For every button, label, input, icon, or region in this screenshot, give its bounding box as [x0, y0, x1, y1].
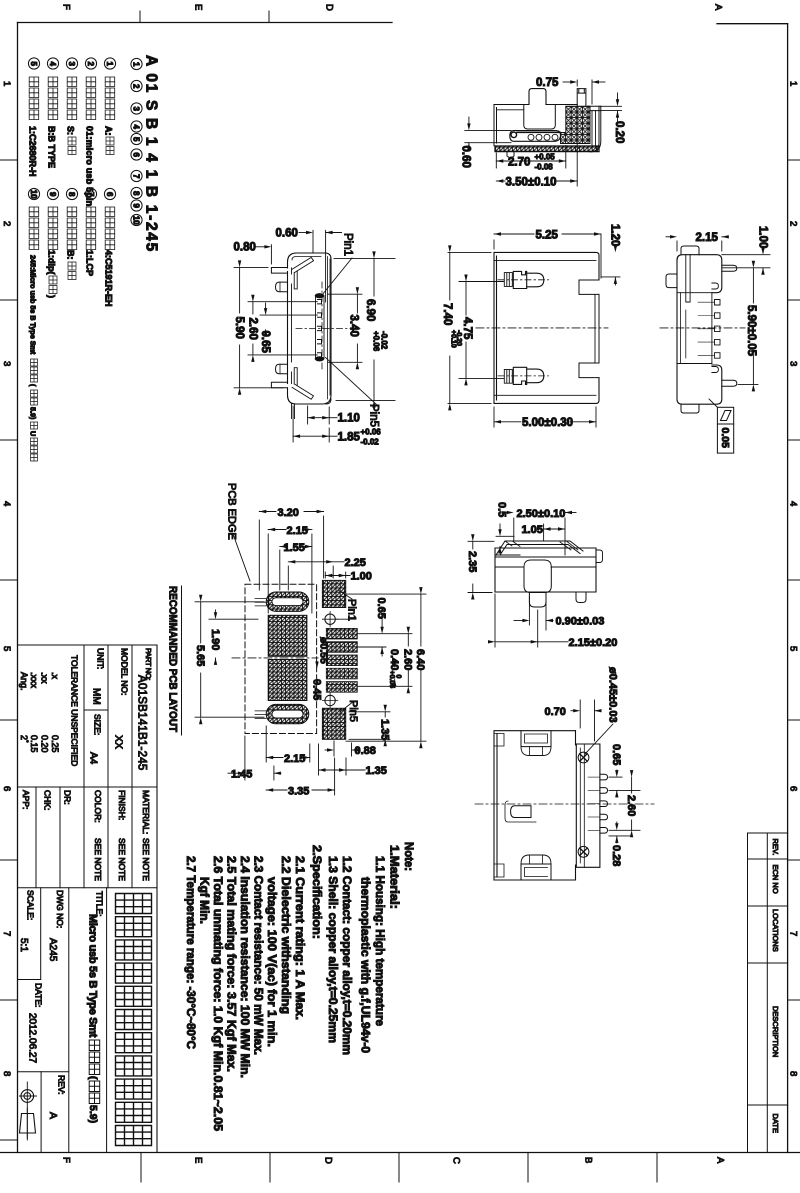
view C: centerline: [476, 327, 608, 329]
svg-text:ø0.55: ø0.55: [317, 637, 329, 664]
dim 1.00 (PCB): [324, 572, 326, 578]
view B: latch bump top: [276, 282, 288, 292]
svg-text:DESCRIPTION: DESCRIPTION: [771, 1006, 780, 1057]
svg-text:3.50±0.10: 3.50±0.10: [506, 177, 557, 189]
svg-text:3: 3: [67, 61, 76, 66]
svg-text:5.9): 5.9): [87, 1105, 99, 1123]
svg-text:6: 6: [132, 152, 141, 157]
dim 0.65 (view F): [609, 776, 622, 778]
svg-text:2.15: 2.15: [287, 525, 308, 537]
svg-text:9: 9: [48, 192, 57, 197]
svg-text:4: 4: [48, 61, 57, 66]
svg-text:SEE NOTE: SEE NOTE: [117, 838, 127, 881]
svg-text:2: 2: [1, 221, 12, 226]
view B: bottom solder band: [288, 395, 332, 404]
view F: center latch window: [511, 806, 531, 818]
svg-text:-0.20: -0.20: [455, 330, 462, 346]
view A: bottom hatched band: [495, 146, 599, 152]
dim 0.45 (PCB): [315, 662, 318, 669]
dim 2.60 (view F): [609, 829, 640, 831]
svg-text:B:: B:: [66, 250, 76, 260]
view D: body outline: [677, 255, 722, 293]
svg-text:5:1: 5:1: [18, 938, 29, 952]
svg-text:Micro usb 5s B Type Smt: Micro usb 5s B Type Smt: [87, 914, 99, 1038]
svg-text:2.15±0.20: 2.15±0.20: [569, 637, 618, 649]
svg-text:7: 7: [86, 192, 95, 197]
svg-text:B: B: [583, 1157, 594, 1163]
view A: tongue under post: [524, 105, 556, 130]
svg-text:2.70: 2.70: [508, 157, 530, 169]
view B: horizontal centerline: [296, 327, 360, 329]
svg-text:1:dip(: 1:dip(: [47, 250, 57, 275]
svg-text:2.50±0.10: 2.50±0.10: [517, 508, 566, 520]
svg-text:SEE NOTE: SEE NOTE: [93, 838, 103, 881]
svg-text:1.00: 1.00: [757, 226, 769, 248]
svg-text:10: 10: [29, 190, 38, 199]
svg-text:0: 0: [395, 675, 402, 679]
PCB centerline: [232, 657, 318, 659]
svg-text:1:C2680R-H: 1:C2680R-H: [28, 126, 38, 177]
dim 1.35 (pin5 pad vertical): [349, 711, 390, 713]
svg-text:4: 4: [1, 501, 12, 506]
view A: right plate: [592, 111, 596, 148]
zone ticks left/right edges: [0, 159, 18, 161]
view C: latch cutout top: [504, 273, 512, 287]
svg-text:.xx: .xx: [40, 672, 50, 684]
svg-text:3.20: 3.20: [278, 507, 299, 519]
svg-text:2: 2: [86, 61, 95, 66]
svg-text:ECN NO: ECN NO: [771, 865, 780, 894]
svg-text:6.90: 6.90: [364, 299, 376, 321]
dim 5.25 (view C): [493, 240, 495, 249]
svg-text:4.75: 4.75: [461, 317, 473, 340]
svg-text:Pin5: Pin5: [347, 700, 359, 722]
view D: right step bumps: [712, 283, 719, 289]
legend row 4a: (4) chanpin leixing B:B TYPE: [47, 58, 58, 69]
dim 0.60 (view B): [312, 230, 314, 253]
svg-text:0.65: 0.65: [375, 598, 387, 619]
dim 7.40 +0.10/-0.20 (view C left): [448, 251, 491, 253]
dim 1.90 (PCB left): [209, 618, 258, 620]
svg-text:F: F: [61, 1157, 72, 1163]
svg-text:A245: A245: [47, 938, 58, 962]
svg-text:5: 5: [1, 646, 12, 651]
svg-text:PCB EDGE: PCB EDGE: [226, 483, 238, 540]
svg-text:UNIT:: UNIT:: [96, 648, 106, 669]
view B: vertical centerline thru contacts: [321, 282, 323, 372]
svg-text:7: 7: [788, 931, 799, 936]
svg-text:1.45: 1.45: [231, 769, 252, 781]
drawing sheet frame: [18, 22, 393, 24]
dim 1.55 (PCB): [279, 550, 281, 590]
svg-text:5.65: 5.65: [194, 645, 206, 666]
svg-text:5.25: 5.25: [536, 230, 559, 242]
svg-text:COLOR:: COLOR:: [93, 790, 103, 823]
svg-text:0.65: 0.65: [610, 744, 622, 765]
dim 0.65 (PCB right): [337, 618, 356, 620]
svg-text:TITLE:: TITLE:: [95, 891, 105, 917]
svg-text:+0.05: +0.05: [535, 153, 556, 162]
svg-text:1.05: 1.05: [522, 524, 543, 536]
svg-text:6: 6: [788, 786, 799, 791]
dim 3.40 (view B): [328, 293, 362, 295]
view E: body outline: [495, 548, 596, 592]
svg-text:A: A: [713, 4, 724, 11]
dim 2.60 (view B): [248, 301, 317, 303]
view F: top-left wing cluster: [521, 731, 551, 747]
svg-text:0.70: 0.70: [545, 706, 566, 718]
svg-text:9: 9: [132, 203, 141, 208]
svg-text:2: 2: [788, 221, 799, 226]
svg-text:5: 5: [29, 61, 38, 66]
view A: side section body outline: [494, 104, 577, 106]
dim 4.75 (view C left): [459, 281, 504, 283]
dim 6.40 (PCB right): [346, 593, 426, 595]
svg-text:.x: .x: [50, 672, 60, 680]
svg-text:DR:: DR:: [63, 790, 73, 805]
view E: top latch plate: [496, 541, 583, 555]
svg-text:2.60: 2.60: [247, 318, 259, 340]
dim 2.15 (view D): [676, 241, 678, 251]
view D: pins right: [722, 265, 737, 271]
svg-text:0.88: 0.88: [355, 745, 376, 757]
five terminal pads (hatched): [326, 628, 357, 639]
dim 2.15+-0.20 (view E): [494, 594, 496, 647]
svg-text:2.3 Contact resistance: 50 mW: 2.3 Contact resistance: 50 mW Max.: [252, 856, 266, 1055]
svg-text:0.45: 0.45: [310, 679, 322, 700]
dim 6.90 +0.06/-0.02 (view B): [334, 257, 395, 259]
PCB edge dashed rectangle: [245, 584, 317, 733]
dim 0.40 +0.05/0 (PCB): [394, 660, 396, 663]
side tails of oval pads: [255, 599, 266, 606]
view E: right pin down: [576, 592, 586, 603]
view A: bottom foot: [507, 152, 514, 159]
svg-text:1.Material:: 1.Material:: [388, 845, 402, 909]
pin5 pad (hatched): [322, 708, 345, 739]
svg-text:0.25: 0.25: [50, 735, 60, 753]
svg-text:0.75: 0.75: [536, 77, 559, 89]
svg-text:0.28: 0.28: [610, 845, 622, 866]
svg-text:5.90±0.05: 5.90±0.05: [745, 305, 757, 357]
svg-text:5.00±0.30: 5.00±0.30: [522, 417, 573, 429]
dim 2.35 (view E): [468, 540, 494, 542]
view F: pin carrier column: [576, 744, 600, 867]
svg-text:1.2 Contact: copper alloy,t=0.: 1.2 Contact: copper alloy,t=0.20mm: [340, 856, 354, 1055]
dim 2.15 (PCB top): [267, 534, 269, 613]
svg-text:REV:: REV:: [57, 1075, 67, 1095]
svg-text:(: (: [29, 384, 38, 387]
legend row 5b: (10) duanzi liushui 245:Micro usb 5s B Type Smt...: [28, 188, 39, 199]
svg-text:7: 7: [132, 174, 141, 179]
view E: foot: [524, 567, 551, 593]
dim 0.60 (view A): [465, 129, 511, 131]
svg-text:2.5 Total mating force: 3.57 K: 2.5 Total mating force: 3.57 Kgf Max.: [225, 856, 239, 1072]
view A: center post: [529, 89, 546, 105]
svg-text:1.00: 1.00: [351, 571, 372, 583]
svg-text:1: 1: [105, 61, 114, 66]
svg-text:0.40: 0.40: [388, 649, 400, 670]
svg-text:2.4 Insulation resistance: 100: 2.4 Insulation resistance: 100 MW Min.: [238, 856, 252, 1078]
svg-text:2˚: 2˚: [19, 735, 29, 743]
zone ticks top/bottom edges: [139, 11, 141, 23]
view E: bottom peg: [529, 593, 546, 608]
svg-text:A01SB141B1-245: A01SB141B1-245: [136, 675, 148, 771]
svg-text:1: 1: [788, 81, 799, 86]
dim 1.05 (view E): [543, 524, 545, 541]
legend row 1a: (1) chanpin daihao A:chengpin: [104, 58, 115, 69]
view B: shell outline: [288, 253, 323, 268]
svg-text:1.10: 1.10: [338, 413, 360, 425]
view A: right tail plate lines: [588, 106, 601, 110]
svg-text:3.35: 3.35: [288, 785, 309, 797]
svg-text:DWG NO:: DWG NO:: [55, 890, 65, 928]
svg-text:2012.06.27: 2012.06.27: [27, 1013, 38, 1063]
svg-text:B:B TYPE: B:B TYPE: [47, 126, 57, 168]
dim 0.65 (view B): [260, 314, 317, 316]
svg-text:4: 4: [132, 124, 141, 129]
dim 1.00 (view D): [722, 254, 770, 256]
dim 5.90+-0.05 (view D): [722, 267, 770, 269]
svg-text:D: D: [324, 4, 335, 11]
svg-text:XX: XX: [113, 735, 125, 749]
dim 0.5 (view E): [496, 535, 514, 537]
dim 0.20 (view A): [601, 105, 622, 107]
svg-text:C: C: [451, 1157, 462, 1164]
svg-text:LOCATIONS: LOCATIONS: [771, 909, 780, 952]
svg-text:5: 5: [132, 137, 141, 142]
svg-text:6: 6: [105, 192, 114, 197]
svg-text:0.60: 0.60: [460, 146, 472, 168]
svg-text:2.60: 2.60: [401, 649, 413, 670]
dim 2.15 (PCB bottom): [265, 726, 267, 762]
view B: five contacts: [318, 300, 322, 304]
legend row 3a: (3) chanpin leibie S:muzuo: [66, 58, 77, 69]
view A: cross-hatched shield block: [561, 106, 591, 143]
view F: bottom-left wing cluster: [521, 864, 551, 880]
svg-text:A 01 S B 1 4 1 B 1-245: A 01 S B 1 4 1 B 1-245: [143, 55, 160, 253]
dim 3.35 (PCB): [334, 758, 336, 795]
svg-text:4: 4: [788, 501, 799, 506]
svg-text:APP:: APP:: [21, 790, 31, 809]
view B: bottom-left chamfer: [292, 384, 313, 399]
big hatched pad lower: [268, 660, 307, 701]
big hatched pad upper: [268, 615, 307, 656]
oval pad top (hatched): [266, 592, 309, 611]
view E: right step: [596, 550, 603, 563]
svg-text:1.1 Housing: High temperature: 1.1 Housing: High temperature: [373, 856, 387, 1026]
revision table: [748, 832, 788, 834]
svg-text:MODEL NO:: MODEL NO:: [120, 648, 130, 695]
svg-text:2.15: 2.15: [696, 232, 719, 244]
svg-text:SIZE:: SIZE:: [93, 714, 103, 735]
dim 0.88 (PCB): [333, 741, 335, 756]
svg-text:1.35: 1.35: [366, 765, 387, 777]
svg-text:3.40: 3.40: [348, 315, 360, 337]
svg-text:SCALE:: SCALE:: [26, 890, 36, 920]
svg-text:S:: S:: [66, 126, 76, 135]
svg-text:8: 8: [132, 191, 141, 196]
dim 1.20 (view C): [601, 276, 620, 278]
view B: top-left chamfer: [292, 257, 313, 272]
view D: centerline: [660, 327, 745, 329]
view B: latch bump bottom: [276, 364, 288, 374]
svg-text:F: F: [61, 4, 72, 10]
view F: screw hole top: [578, 752, 589, 763]
svg-text:Pin1: Pin1: [346, 599, 358, 621]
dim 1.35 (PCB horizontal): [318, 744, 320, 775]
view D: contact squares: [715, 300, 721, 306]
dim 1.45 (PCB): [244, 736, 246, 780]
svg-text:E: E: [193, 4, 204, 10]
dim 0.90+-0.03 (view E): [528, 596, 530, 625]
svg-text:0.20: 0.20: [613, 121, 625, 143]
svg-text:.xxx: .xxx: [29, 672, 39, 689]
svg-text:(: (: [87, 1076, 99, 1080]
svg-text:10: 10: [132, 216, 141, 225]
svg-text:1.35: 1.35: [379, 719, 391, 740]
svg-text:1.55: 1.55: [284, 542, 305, 554]
svg-text:1:LCP: 1:LCP: [85, 250, 95, 276]
svg-text:0.05: 0.05: [719, 428, 731, 449]
title block: company name (CJK): [116, 894, 152, 1146]
flatness callout (view D): [717, 407, 733, 453]
svg-text:1.20: 1.20: [609, 224, 621, 246]
svg-text:REV.: REV.: [771, 839, 780, 856]
dim 1.10 (view B): [307, 406, 309, 424]
svg-text:2.15: 2.15: [284, 753, 305, 765]
svg-text:+0.06: +0.06: [361, 428, 382, 437]
svg-text:6.40: 6.40: [414, 649, 426, 670]
dim 0.70 (view F): [579, 700, 581, 728]
view B: left wing top: [271, 268, 287, 274]
svg-text:3: 3: [132, 106, 141, 111]
dim 2.60 (PCB right): [358, 685, 412, 687]
view A: top-right pin: [577, 89, 586, 107]
svg-text:MM: MM: [91, 688, 102, 705]
svg-text:0.20: 0.20: [40, 735, 50, 753]
dim 5.90 (view B): [234, 266, 268, 268]
svg-text:0.90±0.03: 0.90±0.03: [556, 616, 605, 628]
svg-text:2.7 Temperature range: -30°C~8: 2.7 Temperature range: -30°C~80°C: [184, 856, 198, 1049]
view D: latch slot interior: [686, 255, 690, 302]
svg-text:0.80: 0.80: [234, 242, 256, 254]
hole target bottom: [325, 695, 335, 705]
svg-text:7: 7: [1, 931, 12, 936]
svg-text:2: 2: [132, 84, 141, 89]
svg-text:RECOMMANDED PCB LAYOUT: RECOMMANDED PCB LAYOUT: [167, 586, 179, 732]
view A: contact bar: [510, 131, 561, 142]
svg-text:2.6 Total unmating force: 1.0: 2.6 Total unmating force: 1.0 Kgf Min.0.…: [211, 856, 225, 1131]
svg-text:A4: A4: [88, 752, 99, 765]
dim 0.28 (view F): [609, 835, 630, 837]
svg-text:2.2 Dielectric withstanding: 2.2 Dielectric withstanding: [279, 856, 293, 1014]
svg-text:voltage: 100 V(ac) for 1 min.: voltage: 100 V(ac) for 1 min.: [265, 877, 279, 1047]
svg-text:2.60: 2.60: [625, 795, 637, 816]
svg-text:CHK:: CHK:: [43, 790, 53, 810]
svg-text:A: A: [715, 1157, 726, 1164]
dim 5.65 (PCB left): [195, 601, 264, 603]
svg-text:Kgf Min.: Kgf Min.: [198, 877, 212, 924]
svg-text:Pin1: Pin1: [342, 233, 354, 256]
dim 5.00+-0.30 (view C): [595, 407, 597, 427]
svg-text:2.35: 2.35: [466, 551, 478, 572]
svg-text:8: 8: [67, 192, 76, 197]
dim 3.20 (PCB): [258, 520, 260, 590]
svg-text:0.60: 0.60: [276, 228, 298, 240]
dim 1.85 +0.06/-0.02 (view B): [292, 406, 294, 442]
oval pad bottom (hatched): [266, 704, 309, 723]
circled digits 1-10 under code: [131, 58, 142, 69]
svg-text:2.25: 2.25: [345, 557, 366, 569]
view E: body interior lines: [495, 557, 596, 567]
view F: five pins right: [600, 774, 608, 780]
svg-text:8: 8: [1, 1071, 12, 1076]
svg-text:-0.02: -0.02: [361, 438, 380, 447]
svg-text:0.15: 0.15: [29, 735, 39, 753]
svg-text:-0.08: -0.08: [535, 163, 554, 172]
svg-text:5.9): 5.9): [29, 407, 38, 420]
svg-text:3: 3: [1, 361, 12, 366]
svg-text:6: 6: [1, 786, 12, 791]
view B: left wing bottom: [271, 382, 287, 388]
svg-text:A:: A:: [104, 126, 114, 136]
svg-text:U: U: [29, 431, 38, 436]
svg-text:thermoplastic with g.f,UL94v-0: thermoplastic with g.f,UL94v-0: [359, 877, 373, 1053]
svg-text:TOLERANCE UNSPECIFIED: TOLERANCE UNSPECIFIED: [70, 655, 80, 766]
dim 0.80 (view B): [270, 245, 272, 264]
svg-text:0.5: 0.5: [495, 502, 507, 517]
dim 0.75 (view A): [576, 80, 578, 86]
svg-text:2.Specification:: 2.Specification:: [310, 845, 324, 939]
title block grid: [18, 644, 158, 646]
svg-text:8: 8: [788, 1071, 799, 1076]
svg-text:+0.05: +0.05: [388, 671, 395, 689]
view B: inner shell line: [292, 257, 330, 400]
view C: body outline: [494, 252, 599, 403]
legend row 5a: (5) waike caizhi 1:C2680R-H: [28, 58, 39, 69]
dim 2.50+-0.10 (view E): [513, 518, 515, 541]
svg-text:Note:: Note:: [402, 842, 416, 871]
dim 2.70 +0.05/-0.08 (view A): [495, 153, 497, 168]
third-angle projection symbol: [21, 1090, 34, 1103]
hole target top: [325, 614, 335, 624]
view F: left edge tabs: [494, 734, 504, 878]
svg-text:FINISH:: FINISH:: [117, 790, 127, 820]
view C: latch cutout bottom: [504, 369, 512, 383]
legend row 2b: (7) zhuti caizhi 1:LCP: [85, 188, 96, 199]
svg-text:): ): [47, 295, 57, 298]
svg-text:1: 1: [132, 62, 141, 67]
svg-text:ø0.45±0.03: ø0.45±0.03: [606, 667, 618, 723]
svg-text:7.40: 7.40: [441, 303, 453, 325]
legend row 3b: (8) zhuti yanse B:heise: [66, 188, 77, 199]
view C: right notch top: [579, 280, 599, 294]
legend row 4b: (9) xiaban leixing 1:dip: [47, 188, 58, 199]
svg-text:3: 3: [788, 361, 799, 366]
svg-text:SEE NOTE: SEE NOTE: [141, 838, 151, 881]
svg-text:1: 1: [1, 81, 12, 86]
svg-text:5: 5: [788, 646, 799, 651]
svg-text:DATE:: DATE:: [34, 983, 44, 1007]
svg-text:DATE: DATE: [771, 1114, 780, 1133]
svg-text:5.90: 5.90: [233, 317, 245, 339]
view F: screw hole bottom: [578, 846, 589, 857]
pin1 pad (hatched): [322, 580, 345, 607]
view F: main body outline: [494, 731, 576, 880]
view F: centerline: [475, 803, 654, 805]
svg-text:0.65: 0.65: [259, 331, 271, 354]
svg-text:1.90: 1.90: [209, 629, 221, 650]
